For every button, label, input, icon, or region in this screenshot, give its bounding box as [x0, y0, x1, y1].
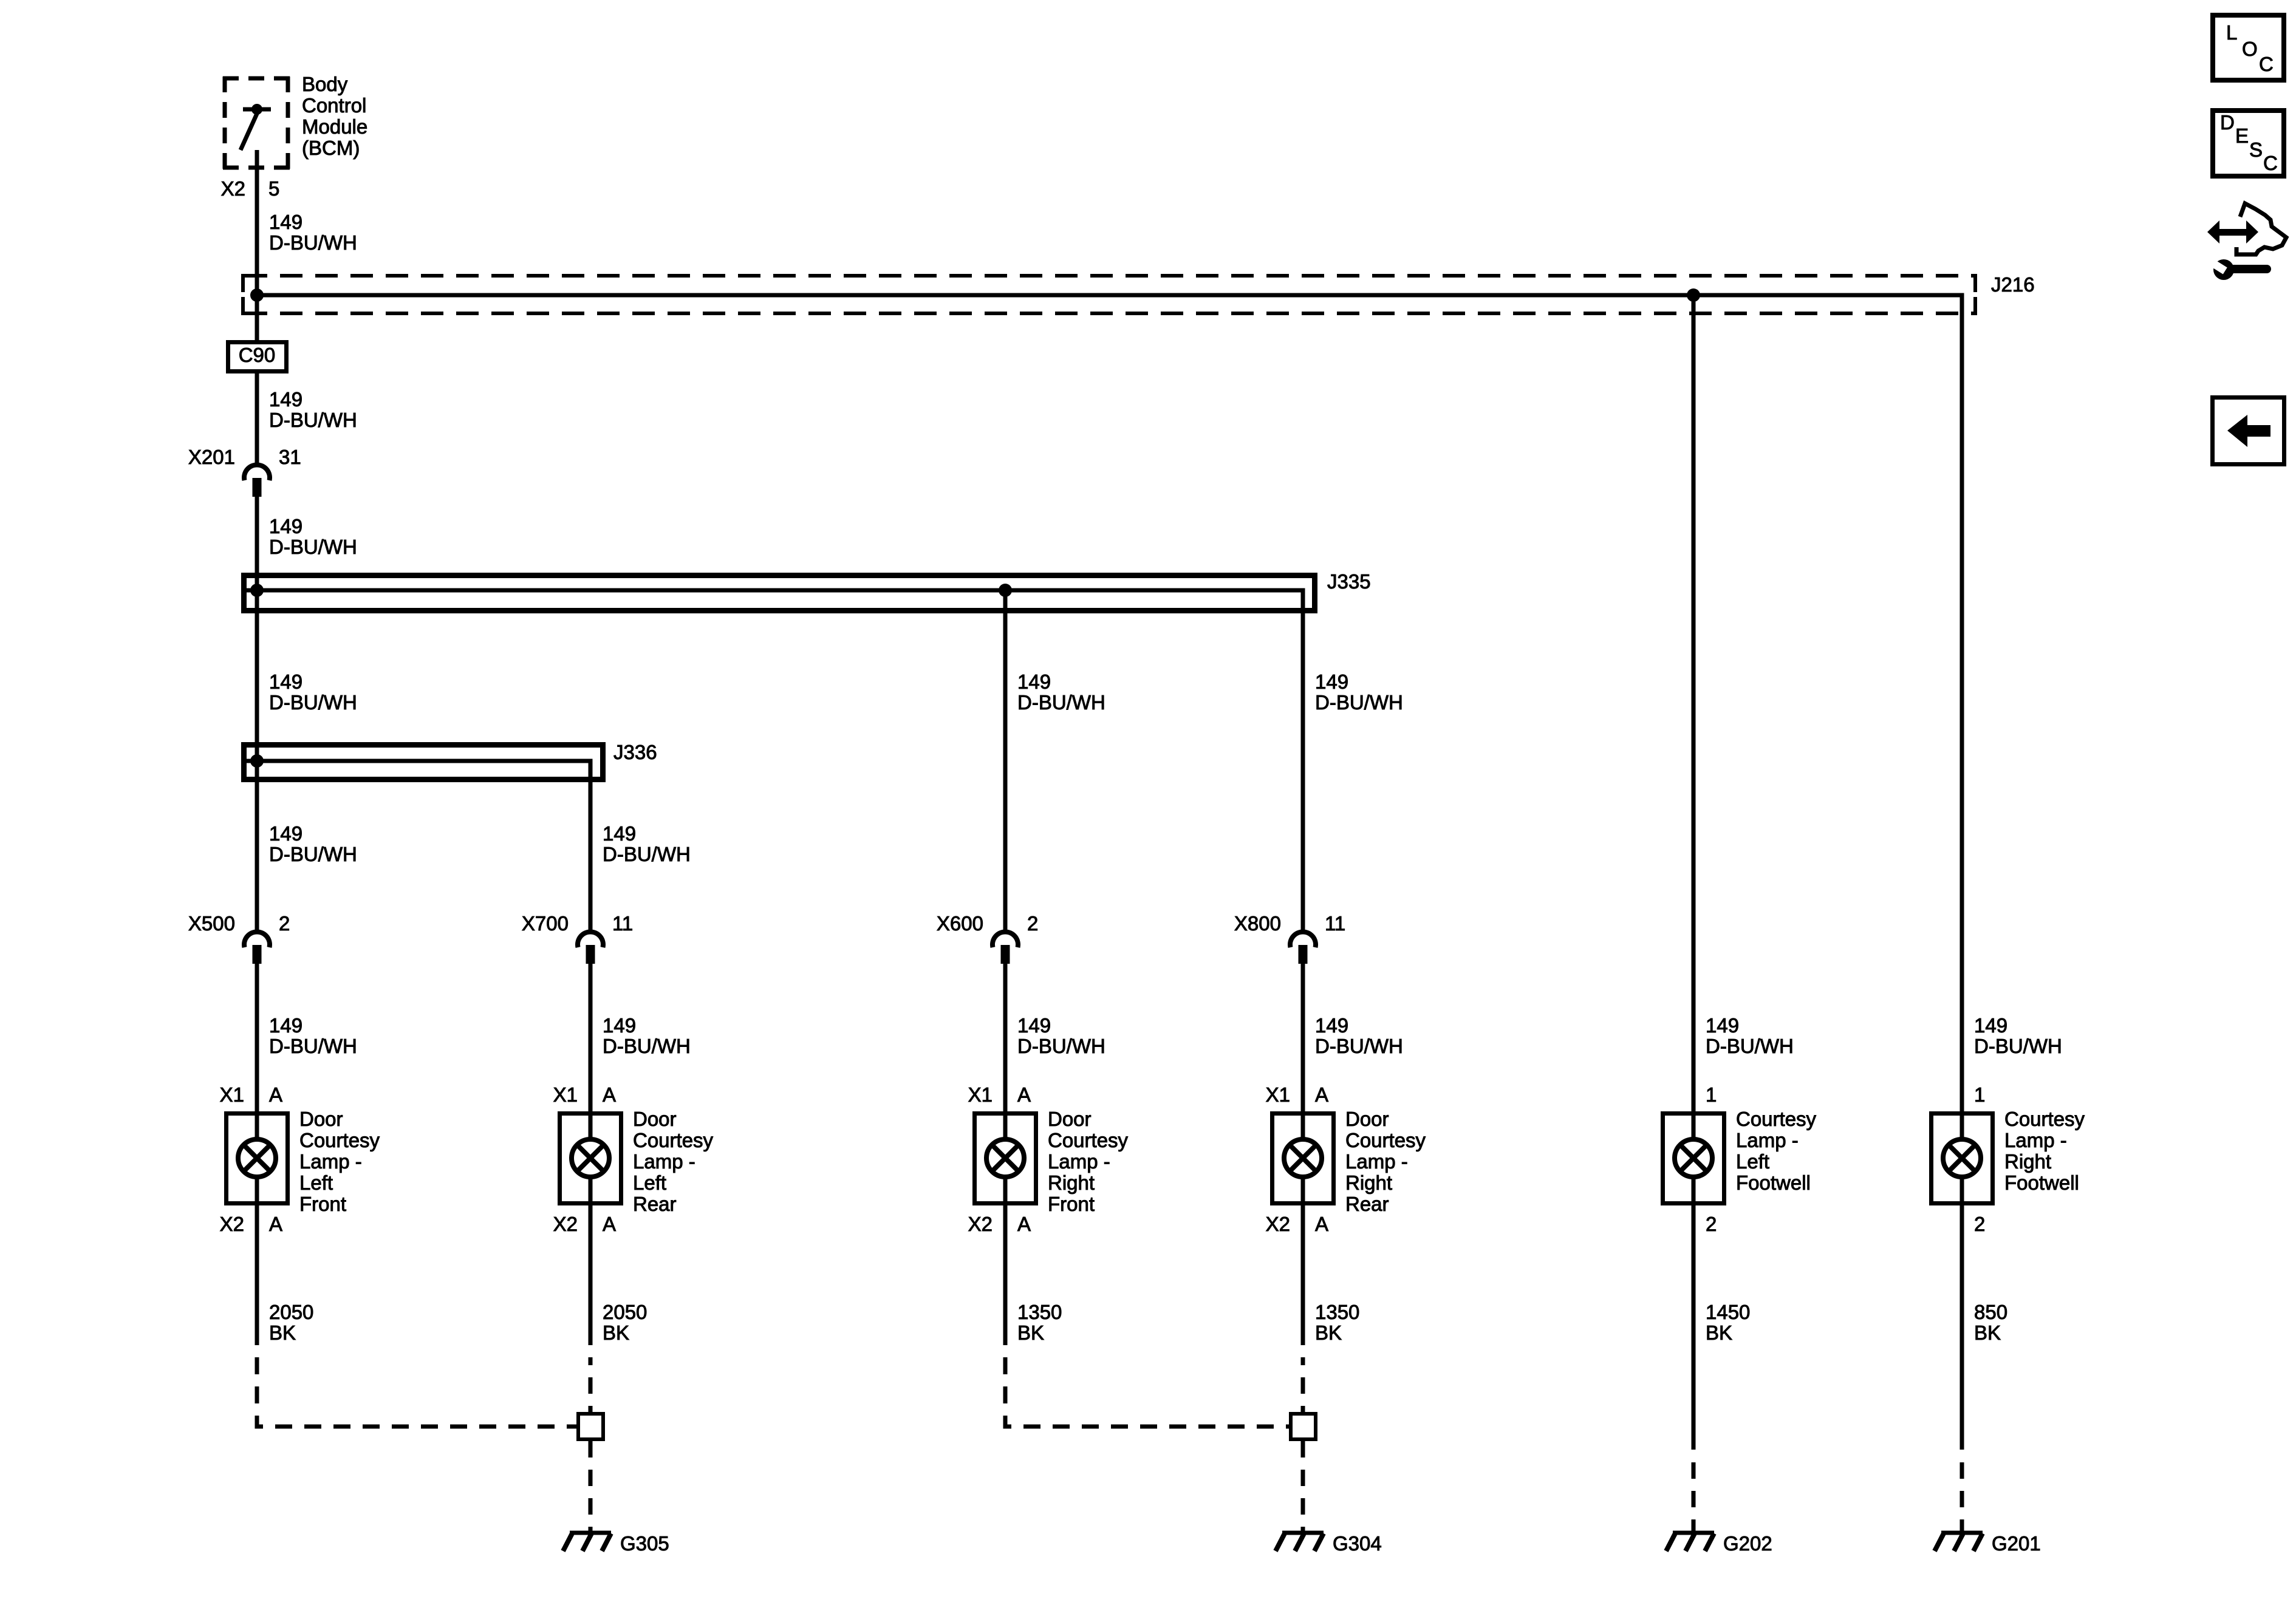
svg-text:C: C — [2259, 53, 2274, 75]
wire inside J335 to X800 column — [247, 590, 1303, 933]
splice S2 (right doors) — [1291, 1414, 1316, 1439]
svg-text:Lamp -: Lamp - — [1345, 1150, 1408, 1173]
svg-text:X2: X2 — [553, 1213, 578, 1235]
wire 149 D-BU/WH from BCM — [255, 150, 259, 340]
svg-text:A: A — [603, 1083, 616, 1106]
wire to left footwell lamp — [1692, 295, 1696, 1111]
LOC icon box — [2213, 15, 2284, 80]
svg-text:149: 149 — [1315, 1014, 1348, 1037]
svg-text:Left: Left — [299, 1171, 333, 1194]
lamp Door Courtesy Lamp - Left Rear — [553, 1083, 714, 1235]
wire 2050 BK left rear — [589, 1205, 593, 1345]
svg-text:A: A — [1315, 1213, 1328, 1235]
wire label 149 D-BU/WH — [269, 515, 357, 558]
wire below X201 — [255, 497, 259, 933]
svg-text:1: 1 — [1706, 1083, 1717, 1106]
wire inside J336 to X700 column — [247, 761, 590, 933]
splice pack J335 — [244, 570, 1371, 611]
wire 1350 BK right rear — [1301, 1205, 1305, 1345]
dashed wire to G202 — [1692, 1462, 1696, 1535]
ground G201 — [1935, 1532, 2041, 1555]
svg-text:X2: X2 — [968, 1213, 993, 1235]
svg-text:D-BU/WH: D-BU/WH — [1706, 1035, 1794, 1057]
svg-text:2: 2 — [1706, 1213, 1717, 1235]
svg-text:2050: 2050 — [603, 1301, 647, 1323]
svg-text:149: 149 — [603, 822, 636, 845]
svg-text:BK: BK — [603, 1321, 629, 1344]
svg-text:1350: 1350 — [1315, 1301, 1359, 1323]
svg-text:J336: J336 — [613, 741, 657, 763]
dashed wire left rear to splice — [589, 1357, 593, 1412]
svg-text:Door: Door — [1048, 1108, 1092, 1130]
junction dot J335 at X600 column — [999, 584, 1012, 597]
svg-text:Lamp -: Lamp - — [1736, 1129, 1799, 1151]
svg-text:A: A — [603, 1213, 616, 1235]
svg-text:J335: J335 — [1327, 570, 1371, 593]
svg-text:D: D — [2220, 111, 2235, 134]
svg-text:D-BU/WH: D-BU/WH — [269, 1035, 357, 1057]
svg-text:Module: Module — [302, 115, 367, 138]
BCM label — [302, 73, 367, 159]
svg-text:Courtesy: Courtesy — [1345, 1129, 1426, 1151]
svg-text:Door: Door — [1345, 1108, 1389, 1130]
svg-text:X1: X1 — [1266, 1083, 1290, 1106]
svg-text:Rear: Rear — [1345, 1193, 1389, 1215]
svg-text:BK: BK — [1974, 1321, 2001, 1344]
svg-text:L: L — [2226, 21, 2237, 44]
svg-text:Right: Right — [1345, 1171, 1392, 1194]
wire 149 inside J216 to right footwell column — [257, 295, 1962, 1111]
svg-text:C: C — [2263, 152, 2278, 174]
svg-text:Courtesy: Courtesy — [2004, 1108, 2085, 1130]
connector X500 pin 2 — [188, 912, 290, 964]
svg-text:Body: Body — [302, 73, 348, 95]
svg-text:G304: G304 — [1333, 1532, 1382, 1555]
svg-text:149: 149 — [269, 388, 302, 411]
svg-text:A: A — [1315, 1083, 1328, 1106]
svg-text:D-BU/WH: D-BU/WH — [269, 409, 357, 431]
svg-text:Door: Door — [299, 1108, 343, 1130]
svg-text:BK: BK — [1706, 1321, 1732, 1344]
lamp Door Courtesy Lamp - Right Front — [968, 1083, 1129, 1235]
junction dot J335 left — [250, 584, 264, 597]
svg-text:5: 5 — [268, 177, 279, 200]
wire label 149 D-BU/WH — [269, 822, 357, 865]
svg-text:BK: BK — [269, 1321, 296, 1344]
svg-text:Front: Front — [299, 1193, 346, 1215]
dashed wire splice to G304 — [1301, 1441, 1305, 1535]
svg-text:Footwell: Footwell — [2004, 1171, 2079, 1194]
svg-text:149: 149 — [1974, 1014, 2007, 1037]
wire below C90 — [255, 373, 259, 466]
splice S1 (left doors) — [578, 1414, 603, 1439]
svg-text:D-BU/WH: D-BU/WH — [1974, 1035, 2062, 1057]
svg-text:149: 149 — [1315, 670, 1348, 693]
svg-text:D-BU/WH: D-BU/WH — [1017, 691, 1105, 714]
svg-text:149: 149 — [1017, 1014, 1051, 1037]
wire 1350 BK right front — [1003, 1205, 1008, 1345]
dashed wire right rear to splice — [1301, 1357, 1305, 1412]
svg-text:149: 149 — [269, 1014, 302, 1037]
svg-text:J216: J216 — [1991, 273, 2035, 296]
back arrow icon box — [2213, 398, 2284, 465]
svg-text:D-BU/WH: D-BU/WH — [603, 843, 691, 865]
svg-text:Left: Left — [633, 1171, 666, 1194]
svg-text:D-BU/WH: D-BU/WH — [1017, 1035, 1105, 1057]
svg-text:149: 149 — [269, 822, 302, 845]
junction dot at left footwell column on J216 — [1687, 288, 1700, 302]
svg-text:Front: Front — [1048, 1193, 1095, 1215]
svg-text:Courtesy: Courtesy — [1048, 1129, 1129, 1151]
ground G305 — [563, 1532, 669, 1555]
svg-text:1450: 1450 — [1706, 1301, 1750, 1323]
svg-text:149: 149 — [269, 515, 302, 537]
svg-text:Right: Right — [2004, 1150, 2051, 1173]
svg-text:X700: X700 — [522, 912, 569, 935]
svg-text:D-BU/WH: D-BU/WH — [1315, 1035, 1403, 1057]
svg-text:1: 1 — [1974, 1083, 1985, 1106]
svg-text:11: 11 — [612, 912, 633, 935]
svg-text:(BCM): (BCM) — [302, 137, 360, 159]
svg-text:149: 149 — [269, 670, 302, 693]
wire label 149 D-BU/WH — [1315, 670, 1403, 714]
svg-text:Lamp -: Lamp - — [1048, 1150, 1110, 1173]
svg-text:Lamp -: Lamp - — [2004, 1129, 2067, 1151]
BCM dashed box — [223, 77, 290, 169]
svg-text:Courtesy: Courtesy — [299, 1129, 380, 1151]
svg-text:D-BU/WH: D-BU/WH — [269, 536, 357, 558]
svg-text:Door: Door — [633, 1108, 677, 1130]
connector X201 pin 31 — [188, 446, 301, 497]
wire label 149 D-BU/WH — [269, 670, 357, 714]
svg-text:X2: X2 — [221, 177, 245, 200]
svg-text:A: A — [1017, 1083, 1031, 1106]
svg-text:149: 149 — [1706, 1014, 1739, 1037]
pin label X2 / 5 — [221, 177, 280, 200]
wire below X700 to left rear lamp — [589, 964, 593, 1111]
wire below X600 to right front lamp — [1003, 964, 1008, 1111]
ground G304 — [1276, 1532, 1382, 1555]
wire label 1350 BK — [1017, 1301, 1062, 1344]
connector X800 pin 11 — [1234, 912, 1345, 964]
svg-text:149: 149 — [603, 1014, 636, 1037]
svg-text:Lamp -: Lamp - — [633, 1150, 695, 1173]
svg-text:X800: X800 — [1234, 912, 1281, 935]
svg-text:X2: X2 — [1266, 1213, 1290, 1235]
svg-text:Rear: Rear — [633, 1193, 677, 1215]
connector X700 pin 11 — [522, 912, 633, 964]
svg-text:X1: X1 — [968, 1083, 993, 1106]
svg-text:G202: G202 — [1723, 1532, 1772, 1555]
wire label 149 D-BU/WH — [1974, 1014, 2062, 1057]
svg-text:Footwell: Footwell — [1736, 1171, 1811, 1194]
dashed wire right front to splice — [1005, 1357, 1289, 1427]
wire to X600 — [1003, 590, 1008, 933]
wire label 149 D-BU/WH — [1017, 1014, 1105, 1057]
svg-text:2050: 2050 — [269, 1301, 313, 1323]
wire label 149 D-BU/WH — [603, 1014, 691, 1057]
wire label 2050 BK — [269, 1301, 313, 1344]
svg-text:Control: Control — [302, 94, 366, 117]
lamp Door Courtesy Lamp - Right Rear — [1266, 1083, 1426, 1235]
wire label 149 D-BU/WH — [603, 822, 691, 865]
svg-text:D-BU/WH: D-BU/WH — [1315, 691, 1403, 714]
svg-text:Courtesy: Courtesy — [633, 1129, 714, 1151]
svg-text:S: S — [2249, 138, 2263, 161]
svg-text:BK: BK — [1315, 1321, 1342, 1344]
svg-text:11: 11 — [1325, 912, 1345, 935]
svg-text:A: A — [1017, 1213, 1031, 1235]
svg-text:D-BU/WH: D-BU/WH — [603, 1035, 691, 1057]
svg-text:2: 2 — [279, 912, 290, 935]
connector X600 pin 2 — [937, 912, 1038, 964]
svg-text:A: A — [269, 1213, 282, 1235]
svg-text:BK: BK — [1017, 1321, 1044, 1344]
wire label 149 D-BU/WH — [269, 388, 357, 431]
svg-text:X1: X1 — [220, 1083, 244, 1106]
svg-text:D-BU/WH: D-BU/WH — [269, 843, 357, 865]
svg-text:149: 149 — [1017, 670, 1051, 693]
wire label 1350 BK — [1315, 1301, 1359, 1344]
junction dot at BCM column on J216 — [250, 288, 264, 302]
svg-text:C90: C90 — [239, 344, 276, 366]
svg-text:X1: X1 — [553, 1083, 578, 1106]
wire label 149 D-BU/WH — [1315, 1014, 1403, 1057]
dashed wire to G201 — [1960, 1462, 1964, 1535]
svg-text:X600: X600 — [937, 912, 983, 935]
svg-text:31: 31 — [279, 446, 301, 468]
BCM internal switch — [241, 104, 271, 150]
svg-text:1350: 1350 — [1017, 1301, 1062, 1323]
svg-text:A: A — [269, 1083, 282, 1106]
svg-text:E: E — [2235, 124, 2249, 147]
lamp Courtesy Lamp - Left Footwell — [1663, 1083, 1817, 1235]
lamp Door Courtesy Lamp - Left Front — [220, 1083, 380, 1235]
lamp Courtesy Lamp - Right Footwell — [1932, 1083, 2085, 1235]
svg-text:X201: X201 — [188, 446, 235, 468]
connector C90 — [228, 343, 287, 372]
svg-text:Lamp -: Lamp - — [299, 1150, 362, 1173]
dashed wire left front to splice — [257, 1357, 576, 1427]
svg-text:G201: G201 — [1992, 1532, 2041, 1555]
junction dot J336 left — [250, 754, 264, 768]
wire 2050 BK left front — [255, 1205, 259, 1345]
svg-text:D-BU/WH: D-BU/WH — [269, 691, 357, 714]
connector service icon — [2204, 203, 2286, 280]
ground G202 — [1666, 1532, 1772, 1555]
svg-text:G305: G305 — [620, 1532, 669, 1555]
wire below X800 to right rear lamp — [1301, 964, 1305, 1111]
dashed wire splice to G305 — [589, 1441, 593, 1535]
svg-text:Left: Left — [1736, 1150, 1769, 1173]
svg-text:O: O — [2242, 38, 2258, 60]
wire below X500 to left front lamp — [255, 964, 259, 1111]
svg-text:850: 850 — [1974, 1301, 2007, 1323]
wire label 149 D-BU/WH — [269, 211, 357, 254]
svg-text:D-BU/WH: D-BU/WH — [269, 231, 357, 254]
DESC icon box — [2213, 111, 2284, 176]
wire label 149 D-BU/WH — [1706, 1014, 1794, 1057]
svg-text:2: 2 — [1027, 912, 1038, 935]
svg-text:149: 149 — [269, 211, 302, 233]
svg-text:Right: Right — [1048, 1171, 1095, 1194]
wire label 149 D-BU/WH — [1017, 670, 1105, 714]
wire 850 BK right footwell — [1960, 1205, 1964, 1450]
wire 1450 BK left footwell — [1692, 1205, 1696, 1450]
wire label 2050 BK — [603, 1301, 647, 1344]
svg-text:X500: X500 — [188, 912, 235, 935]
wire label 850 BK — [1974, 1301, 2007, 1344]
wire label 149 D-BU/WH — [269, 1014, 357, 1057]
wire label 1450 BK — [1706, 1301, 1750, 1344]
splice pack J336 — [244, 741, 657, 780]
splice pack J216 (dashed bus) — [243, 273, 2035, 315]
svg-text:2: 2 — [1974, 1213, 1985, 1235]
svg-text:Courtesy: Courtesy — [1736, 1108, 1817, 1130]
svg-text:X2: X2 — [220, 1213, 244, 1235]
